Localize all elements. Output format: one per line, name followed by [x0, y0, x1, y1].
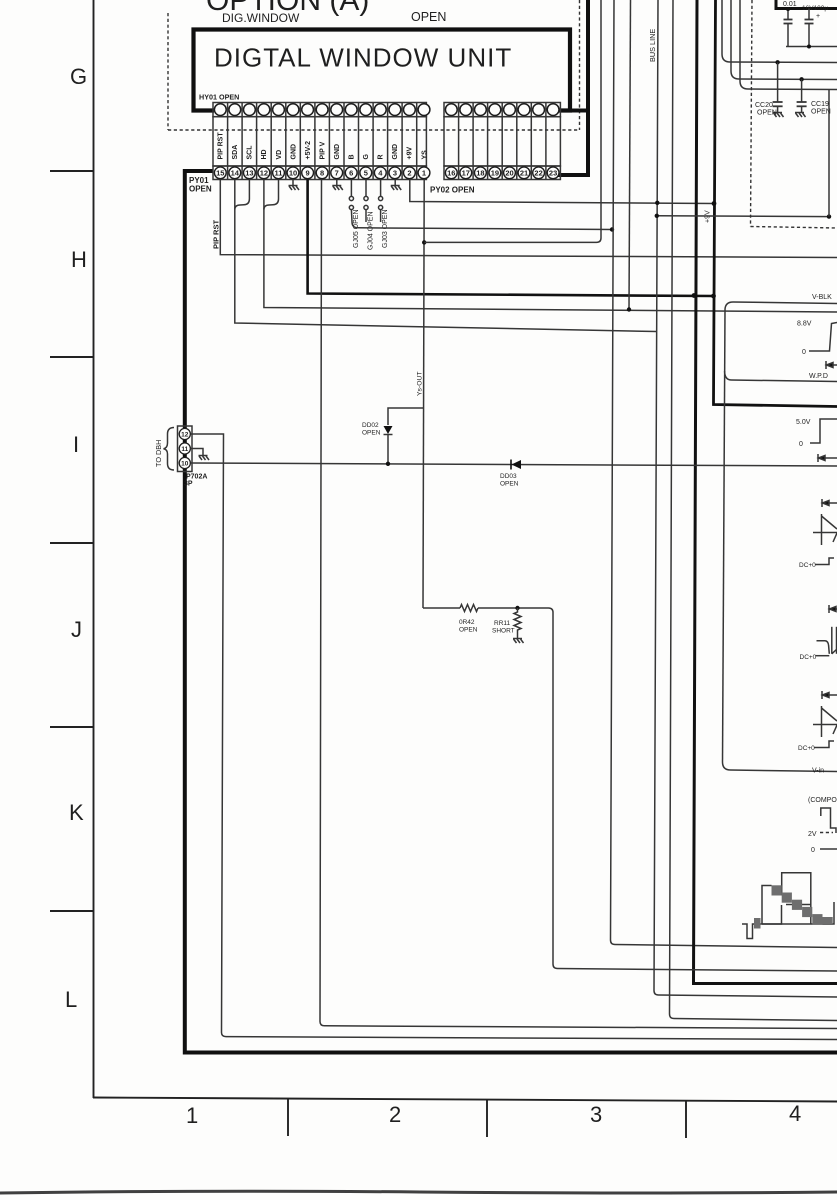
wire pin14 down	[234, 180, 236, 210]
svg-text:DC+0: DC+0	[800, 654, 817, 661]
waveform pulse B	[817, 627, 837, 654]
svg-text:9: 9	[306, 168, 310, 177]
zero level line composite	[820, 848, 837, 850]
svg-text:OPEN: OPEN	[362, 430, 381, 437]
connector P702A pin 12	[179, 428, 190, 439]
row tick J/K	[50, 726, 93, 728]
svg-text:1: 1	[186, 1103, 198, 1128]
svg-text:20: 20	[505, 168, 513, 177]
capacitor CC19	[797, 79, 807, 112]
svg-text:W.P.D: W.P.D	[809, 373, 828, 380]
ground CC19	[795, 113, 806, 118]
cell dividers group1	[228, 103, 417, 180]
svg-text:0: 0	[802, 349, 806, 356]
connector PY numbered row group1 box	[213, 166, 426, 180]
svg-text:16: 16	[447, 168, 455, 177]
connector HY01 circle row group1 box	[213, 103, 426, 117]
svg-text:3P: 3P	[184, 481, 193, 488]
svg-text:OPEN: OPEN	[500, 481, 519, 488]
svg-text:GND: GND	[392, 144, 399, 160]
waveform composite sync pulse	[821, 808, 836, 833]
junction dot RR11	[515, 606, 519, 610]
wire pin12/11 merged down then right	[264, 210, 837, 313]
jumper GJ05 pin6	[349, 180, 353, 210]
wire pin6 GJ05 down then right to bus	[351, 210, 612, 230]
svg-text:17: 17	[462, 168, 470, 177]
row tick K/L	[50, 910, 93, 912]
wire rounded corner 2 to CC19 rail	[731, 0, 837, 80]
svg-text:R: R	[378, 154, 385, 159]
svg-text:DC+0: DC+0	[799, 562, 816, 569]
svg-text:DIGTAL WINDOW UNIT: DIGTAL WINDOW UNIT	[214, 43, 512, 73]
junction dot +9V at x657	[655, 201, 659, 205]
svg-text:OPEN: OPEN	[459, 627, 478, 634]
svg-text:15: 15	[216, 168, 224, 177]
svg-text:SCL: SCL	[247, 145, 254, 160]
svg-text:14: 14	[231, 168, 240, 177]
label DC+0 C	[798, 741, 834, 752]
svg-text:7: 7	[335, 168, 339, 177]
svg-text:H: H	[71, 247, 87, 272]
svg-text:J: J	[71, 617, 82, 642]
wire pin1 YS down long	[423, 180, 424, 609]
connector signal-name row group1 box	[213, 117, 426, 166]
capacitor CC20	[773, 62, 783, 112]
wire OR42 to RR11 junction to corner x553	[478, 608, 837, 971]
time marker arrow V-BLK	[826, 361, 837, 369]
wire P702A pin11 to ground	[190, 449, 203, 456]
outer page frame bottom border	[93, 1098, 837, 1102]
capacitor C-A 0.01	[784, 9, 793, 47]
dashed option enclosure left side	[167, 13, 169, 130]
svg-text:V-in: V-in	[812, 768, 824, 775]
wire pin2 +9V down then right	[410, 180, 714, 204]
staircase step block 5	[812, 914, 822, 924]
svg-text:2V: 2V	[808, 831, 817, 838]
resistor RR11 vertical zigzag	[514, 608, 521, 638]
junction dot x629 on y308 line	[627, 307, 631, 311]
svg-text:12: 12	[181, 432, 189, 439]
svg-text:+5V-2: +5V-2	[305, 141, 312, 160]
svg-text:(COMPOSITE: (COMPOSITE	[808, 797, 837, 804]
connector P702A pin 11	[179, 443, 190, 454]
junction dot DD02 on pin10 line	[386, 462, 390, 466]
svg-text:PIP RST: PIP RST	[218, 132, 225, 160]
bus line x656 with corner to right edge	[654, 0, 837, 997]
svg-text:BUS LINE: BUS LINE	[648, 29, 657, 62]
svg-text:21: 21	[520, 168, 528, 177]
row tick G/H	[50, 170, 93, 172]
wire pin11 jog into pin12 column	[264, 180, 279, 210]
junction dot +9V at thick bus	[712, 201, 717, 206]
wire YS branch to DD02	[388, 408, 423, 425]
bus line x695 thick to bottom corner	[694, 0, 837, 984]
time marker arrow sawtooth A	[822, 499, 837, 507]
svg-text:23: 23	[549, 168, 557, 177]
bus line x612 top to bottom corner	[611, 0, 837, 948]
thick border top-left corner to pin strip	[185, 171, 213, 1051]
svg-text:10: 10	[181, 461, 189, 468]
connector HY01 contact circles	[214, 104, 226, 116]
svg-text:B: B	[349, 154, 356, 159]
junction dot pin1 at y242	[422, 240, 426, 244]
bus line x629 down to y308	[629, 0, 631, 310]
dashed option enclosure right side	[579, 0, 581, 130]
junction dot CC19	[799, 77, 803, 81]
thick dot pin9 line end x714	[711, 294, 716, 299]
svg-text:3: 3	[393, 168, 397, 177]
svg-text:HD: HD	[261, 149, 268, 159]
svg-text:11: 11	[181, 446, 188, 453]
staircase outline rect A	[782, 873, 811, 924]
svg-text:13: 13	[245, 168, 253, 177]
cell dividers group2	[459, 103, 546, 180]
jumper GJ03 pin4	[379, 180, 383, 223]
wire x829 up from y215	[828, 90, 830, 217]
W.P.D line rounded corner	[725, 371, 837, 382]
wire pin15 PIP RST down	[220, 180, 837, 258]
junction dot GJ05 line to bus	[610, 227, 614, 231]
label DC+0 B	[800, 654, 830, 661]
junction dot y215 right	[827, 214, 831, 218]
wire rounded corner 3 rail	[740, 0, 837, 90]
svg-text:22: 22	[534, 168, 542, 177]
svg-text:GJ04 OPEN: GJ04 OPEN	[368, 211, 375, 250]
svg-text:5: 5	[364, 168, 368, 177]
row tick I/J	[50, 542, 93, 544]
wire link y215 bus656 to x829	[657, 215, 829, 218]
svg-text:8.8V: 8.8V	[797, 321, 812, 328]
svg-text:18: 18	[476, 168, 484, 177]
svg-text:V-BLK: V-BLK	[812, 294, 832, 301]
dashed enclosure right bottom	[751, 227, 837, 229]
svg-text:11: 11	[275, 168, 283, 177]
svg-text:RR11: RR11	[494, 620, 511, 627]
waveform 5.0V step	[810, 419, 837, 443]
ground RR11	[513, 639, 524, 644]
time marker arrow C	[822, 691, 837, 699]
svg-text:TO DBH: TO DBH	[154, 440, 163, 467]
staircase burst block	[754, 918, 761, 929]
svg-text:VD: VD	[276, 150, 283, 160]
waveform sawtooth C	[813, 706, 837, 737]
capacitor C-B 16V100u polarized	[805, 9, 814, 47]
waveform box bottom edge with rounded corner	[723, 762, 837, 772]
svg-text:DC+0: DC+0	[798, 745, 815, 752]
svg-text:19: 19	[491, 168, 499, 177]
wire pin12 down	[263, 180, 265, 210]
connector signal-name row group2 box	[444, 117, 560, 166]
wire pin14/13 merged down then right	[235, 210, 656, 332]
diode DD02	[384, 426, 393, 464]
svg-text:GJ05 OPEN: GJ05 OPEN	[353, 209, 360, 248]
svg-text:HY01 OPEN: HY01 OPEN	[199, 93, 239, 102]
bus line x671 with corner to right edge	[670, 0, 837, 1021]
ground P702A pin11	[199, 456, 210, 461]
junction dot capB bottom	[807, 45, 811, 49]
thick border notch around connector right end	[558, 0, 589, 175]
junction dot capA top	[786, 7, 790, 11]
staircase outline rect B	[762, 886, 782, 925]
svg-text:OPEN: OPEN	[189, 185, 212, 194]
svg-text:GND: GND	[290, 144, 297, 160]
connector P702A pin 10	[179, 457, 190, 468]
dashed 2V level	[820, 832, 833, 834]
wire rounded corner 1 to CC20 rail	[722, 0, 837, 63]
connector P702A box	[178, 426, 193, 472]
svg-text:K: K	[69, 800, 84, 825]
wire cap bottom rail	[786, 46, 837, 48]
staircase step block 2	[782, 893, 792, 903]
svg-text:OPEN: OPEN	[811, 109, 831, 116]
svg-text:12: 12	[260, 168, 268, 177]
svg-text:DD03: DD03	[500, 473, 517, 480]
svg-text:5.0V: 5.0V	[796, 419, 811, 426]
jumper GJ04 pin5	[364, 180, 368, 223]
column tick 1/2	[287, 1099, 289, 1136]
wire pin1 link y242 to bus601	[424, 0, 601, 242]
connector PY numbered row group2 box	[444, 166, 560, 180]
column tick 3/4	[685, 1101, 687, 1138]
brace TO DBH	[164, 428, 175, 471]
svg-text:CC20: CC20	[755, 102, 773, 109]
svg-text:L: L	[65, 987, 77, 1012]
svg-text:2: 2	[407, 168, 411, 177]
svg-text:SHORT: SHORT	[492, 628, 515, 635]
svg-text:Ys-OUT: Ys-OUT	[417, 371, 424, 396]
waveform sawtooth A	[813, 514, 837, 545]
wire P702A pin10 long right DD03 line	[190, 463, 837, 466]
svg-text:+: +	[816, 13, 820, 20]
staircase baseline with sync notch	[742, 902, 834, 939]
junction dot y215 left	[655, 214, 659, 218]
dashed option enclosure bottom side	[168, 129, 580, 131]
label DC+0 A	[799, 558, 834, 569]
thick schematic border bottom	[183, 1051, 837, 1055]
waveform V-BLK pulse	[809, 323, 837, 352]
staircase step block 3	[792, 900, 802, 910]
svg-text:YS: YS	[421, 150, 428, 160]
svg-text:DIG.WINDOW: DIG.WINDOW	[222, 11, 300, 25]
bus line x714 thick to corner y404	[714, 0, 837, 407]
svg-text:4: 4	[789, 1101, 801, 1126]
svg-text:G: G	[363, 154, 370, 160]
staircase step block 1	[772, 885, 782, 895]
resistor OR42 inline zigzag	[460, 605, 478, 612]
column tick 2/3	[486, 1100, 488, 1137]
svg-text:+9V: +9V	[407, 147, 414, 160]
time marker arrow step	[818, 454, 837, 462]
connector pin number circles PY01/PY02	[214, 167, 226, 179]
svg-text:0R42: 0R42	[459, 619, 475, 626]
svg-text:OPEN: OPEN	[411, 10, 446, 24]
svg-text:DD02: DD02	[362, 422, 379, 429]
time marker arrow B	[829, 605, 837, 613]
connector HY01 circle row group2 box	[444, 103, 560, 117]
wire pin9 thick down and right	[308, 180, 714, 297]
row tick H/I	[50, 356, 93, 358]
wire P702A pin12 right then down to bottom corner	[190, 434, 837, 1040]
junction dot CC20	[775, 60, 779, 64]
svg-text:3: 3	[590, 1102, 602, 1127]
outer page frame left border	[93, 0, 95, 1098]
scan edge artifact bottom	[0, 1191, 837, 1193]
ground CC20	[773, 113, 784, 118]
diode DD03 on pin10 line	[511, 460, 521, 470]
svg-text:10: 10	[289, 168, 297, 177]
ground pin10	[289, 180, 300, 191]
svg-text:8: 8	[320, 168, 324, 177]
svg-text:0: 0	[811, 847, 815, 854]
ground pin7	[332, 180, 343, 191]
dashed enclosure right vertical	[751, 0, 753, 227]
svg-text:G: G	[70, 64, 87, 89]
svg-text:PIP RST: PIP RST	[212, 220, 221, 249]
staircase step block 6	[823, 917, 833, 924]
svg-text:SDA: SDA	[232, 145, 239, 160]
ground pin3	[391, 180, 402, 191]
svg-text:0.01: 0.01	[783, 1, 797, 8]
waveform box top edge with rounded corner	[725, 302, 837, 310]
wire pin8 down to bottom corner	[320, 180, 837, 1029]
svg-text:1: 1	[422, 168, 426, 177]
svg-text:P702A: P702A	[186, 474, 207, 481]
svg-text:I: I	[73, 432, 79, 457]
waveform box left edge	[723, 310, 726, 762]
component box bottom edge top right	[776, 0, 837, 9]
thick dot pin9 line crossing x695	[692, 293, 697, 298]
digital window unit box U-HY	[194, 30, 571, 111]
wire pin13 jog into pin14 column	[235, 180, 250, 210]
svg-text:CC19: CC19	[811, 101, 829, 108]
svg-text:PY02 OPEN: PY02 OPEN	[430, 186, 475, 195]
svg-text:2: 2	[389, 1102, 401, 1127]
svg-text:6: 6	[349, 168, 353, 177]
wire YS corner into OR42 line	[423, 607, 460, 609]
svg-text:0: 0	[799, 441, 803, 448]
svg-text:16V100µ: 16V100µ	[802, 5, 828, 12]
svg-text:GND: GND	[334, 144, 341, 160]
staircase step block 4	[802, 907, 812, 917]
svg-text:PIP V: PIP V	[319, 141, 326, 159]
svg-text:OPEN: OPEN	[757, 110, 777, 117]
